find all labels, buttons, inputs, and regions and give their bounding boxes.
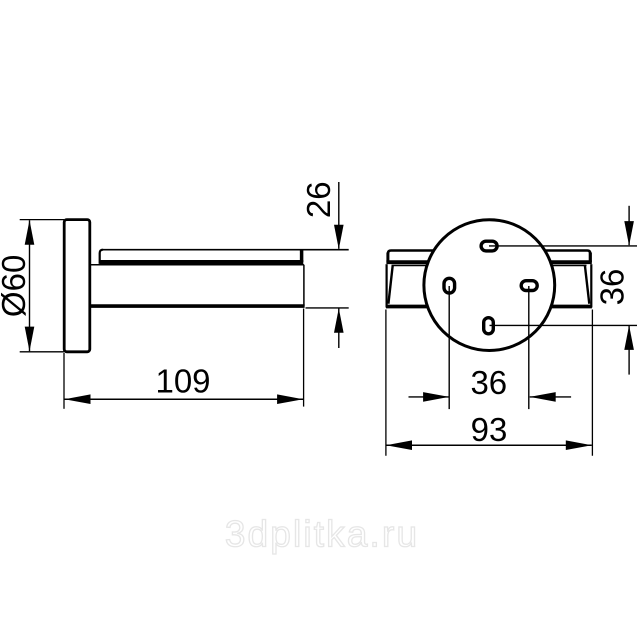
bar bottom edge (thick) bbox=[90, 304, 305, 308]
glass plate top edge + extension to dim 26 bbox=[103, 249, 349, 251]
dim 36 horizontal: right tail bbox=[530, 396, 571, 398]
wall plate bbox=[64, 220, 90, 352]
dim 36 horizontal: right arrow (points left) bbox=[530, 392, 556, 402]
round wall plate (circle) bbox=[424, 220, 555, 351]
bar front: right inner slant bbox=[585, 266, 589, 304]
dim 36 horizontal: left arrow (points right) bbox=[423, 392, 449, 402]
dim 93: line bbox=[386, 444, 592, 446]
right screw slot bbox=[521, 281, 537, 291]
top screw slot bbox=[481, 241, 497, 251]
dim 109 left arrow bbox=[65, 394, 91, 404]
svg-text:36: 36 bbox=[470, 364, 507, 401]
svg-text:93: 93 bbox=[471, 411, 508, 448]
dim 93: left extension line bbox=[385, 310, 387, 456]
dim 109 line bbox=[64, 398, 303, 400]
dim Ø60 bottom extension line bbox=[20, 351, 64, 353]
dim 36 vertical: lower arrow (up) bbox=[624, 325, 634, 350]
dim 36 vertical: upper arrow (down) bbox=[624, 221, 634, 246]
bar (holder arm) top edge bbox=[90, 264, 304, 266]
bar front: left inner slant bbox=[388, 266, 392, 304]
dim 109 right arrow bbox=[277, 394, 303, 404]
glass plate front: top edge bbox=[388, 251, 590, 254]
dimension 26 lower arrow (up) bbox=[334, 308, 344, 333]
svg-text:109: 109 bbox=[155, 362, 210, 399]
leader from left slot down bbox=[448, 286, 450, 409]
leader from bottom slot to right bbox=[490, 324, 638, 326]
bar right edge bbox=[303, 265, 305, 307]
dim 36 horizontal: left tail bbox=[409, 396, 450, 398]
dim Ø60 top extension line bbox=[20, 219, 64, 221]
dim 36 vertical: lower line bbox=[628, 326, 630, 375]
dim 93: left arrow bbox=[386, 440, 412, 450]
svg-text:36: 36 bbox=[593, 269, 630, 306]
left screw slot bbox=[444, 278, 455, 293]
dim Ø60 line bbox=[29, 220, 31, 351]
bar front: bottom edge (thick) bbox=[386, 305, 592, 309]
leader from top slot to right bbox=[489, 245, 637, 247]
svg-text:26: 26 bbox=[300, 181, 337, 218]
dimension 26 upper arrow (down) bbox=[334, 225, 344, 250]
dim 93: right arrow bbox=[566, 440, 592, 450]
glass plate left edge (rounded) bbox=[100, 250, 103, 264]
glass plate front: left edge bbox=[386, 253, 389, 263]
dim 36 vertical: upper line bbox=[628, 206, 630, 245]
dimension 26 line upper part bbox=[338, 182, 340, 249]
glass plate front: right edge bbox=[589, 253, 592, 263]
bottom screw slot bbox=[484, 318, 494, 334]
dim 109 left extension line bbox=[63, 353, 65, 409]
glass plate front: bottom edge (thick band) bbox=[386, 260, 591, 264]
svg-text:3dplitka.ru: 3dplitka.ru bbox=[225, 514, 419, 555]
bar front: left outer edge bbox=[386, 264, 388, 307]
dimension 26 line lower part bbox=[338, 308, 340, 348]
bar front: right outer edge bbox=[590, 264, 592, 307]
bar front: top edge bbox=[392, 264, 587, 266]
dim Ø60 arrow down bbox=[25, 327, 35, 352]
extension line from bar bottom to the right bbox=[306, 307, 349, 309]
leader from right slot down bbox=[528, 286, 530, 409]
dim 93: right extension line bbox=[591, 310, 593, 456]
glass plate bottom edge (thick black band) bbox=[100, 260, 304, 265]
svg-text:Ø60: Ø60 bbox=[0, 255, 32, 317]
glass plate right edge (thick) bbox=[300, 250, 304, 262]
dim 109 right extension line bbox=[303, 309, 305, 407]
dim Ø60 arrow up bbox=[25, 220, 35, 245]
